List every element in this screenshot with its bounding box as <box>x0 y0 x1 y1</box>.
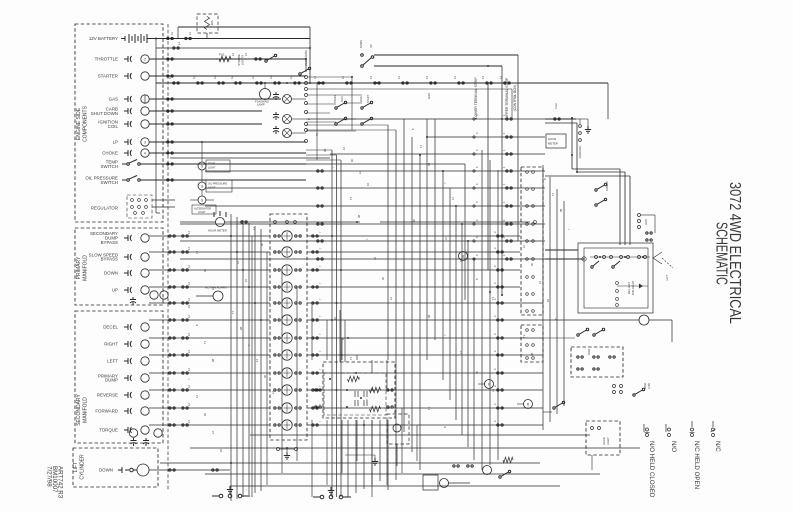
switch pod left <box>591 261 599 268</box>
svg-text:START: START <box>333 94 337 103</box>
bus staircase from manifold rows <box>251 236 253 497</box>
enclosure ENGINE SIDE COMPONENTS <box>75 24 163 222</box>
connector main trunk <box>486 82 493 84</box>
bus risers gas feed <box>387 125 389 360</box>
valve coil V11 <box>282 403 292 413</box>
wire cabin feed <box>543 411 552 413</box>
svg-text:HEAD: HEAD <box>602 437 606 444</box>
connector right column <box>526 258 529 261</box>
svg-text:LIGHT: LIGHT <box>606 437 610 445</box>
svg-text:MANIFOLD: MANIFOLD <box>83 397 89 423</box>
wire trunk row 188 <box>205 187 545 189</box>
connector right column <box>526 310 529 313</box>
wire manifold row right y390 <box>307 389 543 391</box>
svg-text:ENGINE SIDE: ENGINE SIDE <box>76 107 82 140</box>
switch up-down toggle <box>361 54 374 68</box>
wire trunk row 224 <box>180 223 545 225</box>
svg-text:4WD: 4WD <box>587 349 591 355</box>
connector right column <box>526 171 529 174</box>
wire manifold row right y373 <box>307 372 543 374</box>
switch platform select <box>299 67 311 75</box>
valve coil V4 <box>282 282 292 292</box>
svg-text:DOWN: DOWN <box>359 40 363 48</box>
wire temp switch row <box>150 163 306 165</box>
svg-text:7/27/98: 7/27/98 <box>46 466 53 487</box>
diode pod <box>617 285 648 287</box>
wire pod feeds <box>545 249 578 251</box>
svg-text:SECONDARY: SECONDARY <box>76 394 82 426</box>
wire manifold row right y355 <box>307 354 543 356</box>
wire bottom trunk 435 <box>250 434 590 436</box>
harness dashed rail <box>167 24 169 490</box>
svg-text:4B: 4B <box>211 359 215 362</box>
svg-text:AUX: AUX <box>644 219 648 225</box>
wire bottom trunk 486 <box>230 485 560 487</box>
wire alternator stubs <box>190 199 198 201</box>
svg-text:LIFT: LIFT <box>73 462 79 472</box>
svg-text:FOR-RIGHT: FOR-RIGHT <box>631 280 635 295</box>
wire trunk row 171 <box>205 170 545 172</box>
wire pin fan <box>308 88 512 90</box>
enclosure right connector column upper <box>521 167 543 315</box>
ground pins <box>579 125 582 128</box>
svg-text:LOWER TERMINAL STRIP: LOWER TERMINAL STRIP <box>474 77 478 119</box>
svg-text:START: START <box>366 94 370 103</box>
svg-text:CREEP: CREEP <box>605 181 609 191</box>
capacitor network C4 <box>364 400 367 406</box>
svg-text:40A: 40A <box>210 20 214 25</box>
svg-text:4: 4 <box>144 151 146 155</box>
connector main trunk <box>318 82 325 84</box>
wire right cluster stub <box>641 214 655 216</box>
svg-text:DOWN: DOWN <box>99 468 113 473</box>
switch throttle interlock <box>265 54 277 62</box>
wire trunk row 206 <box>205 205 545 207</box>
enclosure SECONDARY MANIFOLD <box>75 311 163 443</box>
bus bundle center-left <box>230 214 232 501</box>
wire breaker risers <box>571 118 573 169</box>
connector main trunk <box>402 82 409 84</box>
wire trunk row 119 <box>306 118 545 120</box>
svg-text:FU1: FU1 <box>219 53 225 57</box>
svg-text:SCHEMATIC: SCHEMATIC <box>713 222 730 285</box>
connector bottom cluster <box>453 465 460 467</box>
svg-text:F: F <box>488 383 490 387</box>
capacitor network C2 <box>355 400 358 406</box>
solenoid carb coil <box>283 115 292 124</box>
wire throttle row <box>149 58 305 60</box>
connector head light <box>591 427 594 430</box>
svg-text:ALTERNATOR: ALTERNATOR <box>194 207 211 211</box>
svg-text:LIGHT: LIGHT <box>208 186 216 190</box>
wire manifold row right y303 <box>307 302 543 304</box>
valve coil V8 <box>282 350 292 360</box>
svg-text:PLATFORM: PLATFORM <box>304 50 308 66</box>
wire manifold row y270 <box>149 269 270 271</box>
wire manifold row y236 <box>149 235 270 237</box>
circuit breaker FU2 <box>554 118 560 120</box>
enclosure valve coil column <box>270 214 307 440</box>
resistor network R3 <box>370 406 381 412</box>
wire starter trunk <box>149 75 306 77</box>
connector block right low <box>613 385 616 388</box>
lamp oil pressure light <box>198 182 206 190</box>
component UP auxiliary coils <box>150 291 158 299</box>
ground symbol main <box>585 126 591 133</box>
wire manifold row right y408 <box>307 407 543 409</box>
svg-text:FORWARD: FORWARD <box>95 409 118 414</box>
svg-text:LEFT: LEFT <box>666 275 669 281</box>
svg-text:2: 2 <box>144 57 146 61</box>
resistor FU1 throttle <box>219 56 231 62</box>
wire staircase rows <box>464 164 466 300</box>
connector main trunk <box>430 82 437 84</box>
wire trunk row 154 <box>330 153 545 155</box>
svg-text:SWITCH: SWITCH <box>100 164 118 169</box>
connector right column <box>526 344 529 347</box>
svg-text:COIL: COIL <box>108 124 119 129</box>
ground cluster below coil box <box>277 448 280 451</box>
junction dots <box>309 82 311 84</box>
wire bottom trunk 463 <box>160 462 540 464</box>
wire feed drop right <box>309 27 311 83</box>
wire manifold row y373 <box>149 372 270 374</box>
wire manifold row right y425 <box>307 424 543 426</box>
wire manifold row right y236 <box>307 235 520 237</box>
solenoid gas coil <box>283 95 292 104</box>
wire cluster links <box>306 103 336 105</box>
wire manifold row y425 <box>149 424 270 426</box>
lamp temp light <box>198 162 206 170</box>
wire carb row <box>149 110 262 112</box>
lamp flashing platform <box>260 89 271 100</box>
wire manifold row right y320 <box>307 319 543 321</box>
wire manifold row right y287 <box>307 286 520 288</box>
enclosure head light box <box>586 421 620 455</box>
capacitor network C1 <box>355 391 358 397</box>
svg-text:12V BATTERY: 12V BATTERY <box>89 36 118 41</box>
wire main distribution trunk <box>156 82 608 84</box>
wire trunk row 259 <box>180 258 545 260</box>
svg-text:TORQUE: TORQUE <box>99 428 118 433</box>
svg-text:4B: 4B <box>427 163 431 166</box>
switch start run A <box>335 101 347 109</box>
wire battery feed top <box>156 38 310 40</box>
wire manifold row y252 <box>149 251 270 253</box>
connector main trunk <box>374 82 381 84</box>
wire manifold row right y338 <box>307 337 543 339</box>
component 4wd motor <box>639 315 649 325</box>
svg-text:RUN: RUN <box>359 96 363 102</box>
wire 4wd switch feed <box>543 337 575 339</box>
connector right column <box>526 240 529 243</box>
wire manifold row y320 <box>149 319 270 321</box>
svg-text:MANIFOLD: MANIFOLD <box>83 255 89 281</box>
switch bottom cluster B <box>313 495 351 499</box>
svg-text:N/C HELD OPEN: N/C HELD OPEN <box>693 441 700 489</box>
connector lower strip pins <box>305 76 308 79</box>
svg-text:THROTTLE: THROTTLE <box>95 57 118 62</box>
wire corner bends to pod <box>572 168 620 170</box>
connector battery feed <box>167 37 174 39</box>
component TORQUE auxiliary coils <box>129 429 137 437</box>
enclosure LIFT CYLINDER <box>73 448 158 487</box>
legend N/C symbol <box>711 421 716 437</box>
switch 4wd select <box>577 328 589 336</box>
wire bottom trunk 474 <box>205 473 600 475</box>
wire regulator links <box>152 199 175 201</box>
switch cluster creep <box>595 183 607 191</box>
bus bundle center-right <box>481 150 483 470</box>
connector main trunk <box>274 82 281 84</box>
svg-text:METER: METER <box>548 142 558 146</box>
svg-text:RUN: RUN <box>340 96 344 102</box>
enclosure resistor network outer <box>323 362 395 418</box>
svg-text:LIGHT: LIGHT <box>198 210 206 214</box>
svg-text:SWITCH: SWITCH <box>100 180 118 185</box>
fuse 40A <box>197 14 218 33</box>
svg-text:4B: 4B <box>530 353 534 356</box>
svg-text:HOUR: HOUR <box>548 137 556 141</box>
wire manifold row y408 <box>149 407 270 409</box>
relay F forward <box>485 380 494 389</box>
wire pod pin row <box>590 256 650 258</box>
lamp bottom <box>440 479 449 488</box>
solenoid ignition coil <box>283 129 292 138</box>
svg-text:CYLINDER: CYLINDER <box>80 454 86 480</box>
svg-text:FU2: FU2 <box>554 103 558 109</box>
connector right column <box>526 205 529 208</box>
enclosure aux lamp box <box>387 414 409 444</box>
wire bottom trunk 448 <box>190 447 640 449</box>
connector main trunk <box>458 82 465 84</box>
wire solenoid feeds <box>292 98 307 100</box>
connector main trunk <box>256 82 263 84</box>
valve coil V3 <box>282 265 292 275</box>
bus fan staggered <box>419 155 421 470</box>
legend N/O symbol <box>666 424 671 437</box>
svg-text:4B: 4B <box>323 149 327 152</box>
svg-text:DECEL: DECEL <box>103 325 118 330</box>
lamp aux <box>393 424 401 432</box>
enclosure drive pod inner loop <box>584 248 648 308</box>
valve coil V6 <box>282 315 292 325</box>
valve coil V12 <box>282 420 292 430</box>
wire fuse feed upper <box>178 26 310 28</box>
wire lp row <box>149 141 306 143</box>
wire battery negative <box>156 47 310 49</box>
svg-text:N/C: N/C <box>714 441 721 452</box>
connector right cluster pins <box>638 214 641 217</box>
svg-text:LP: LP <box>113 140 118 145</box>
wire manifold row y287 <box>149 286 270 288</box>
connector main trunk <box>197 82 204 84</box>
connector coil box header <box>274 221 277 224</box>
connector right column <box>526 329 529 332</box>
svg-text:N/O HELD CLOSED: N/O HELD CLOSED <box>648 441 655 498</box>
wire manifold row right y270 <box>307 269 520 271</box>
relay B brake <box>459 252 468 261</box>
valve coil V5 <box>282 298 292 308</box>
svg-text:N/O: N/O <box>670 441 677 452</box>
svg-text:4B: 4B <box>427 315 431 318</box>
connector tow valve <box>577 356 583 358</box>
valve coil V7 <box>282 333 292 343</box>
wire manifold row y338 <box>149 337 270 339</box>
wire pod fork right <box>653 252 662 258</box>
svg-text:LOW: LOW <box>647 383 651 389</box>
alarm motion <box>213 291 223 301</box>
switch bottom cluster A <box>212 494 250 498</box>
valve coil V1 <box>282 231 292 241</box>
svg-text:3: 3 <box>144 140 146 144</box>
valve coil V9 <box>282 368 292 378</box>
svg-text:LIGHT: LIGHT <box>208 166 216 170</box>
connector right column <box>526 276 529 279</box>
enclosure right connector column lower <box>521 325 543 362</box>
valve coil V10 <box>282 385 292 395</box>
enclosure resistor network inner <box>324 373 386 415</box>
enclosure drive pod outer loop <box>578 243 653 313</box>
connector right column <box>526 223 529 226</box>
svg-text:GAS: GAS <box>427 93 431 99</box>
wire toggle to risers <box>374 54 518 56</box>
switch high low <box>633 388 645 396</box>
svg-text:4B: 4B <box>239 327 243 330</box>
relay pod input <box>582 257 586 261</box>
svg-text:BYPASS: BYPASS <box>101 240 118 245</box>
bus bundle right <box>542 165 544 430</box>
connector pod inner column <box>616 282 619 285</box>
connector main trunk <box>294 82 301 84</box>
svg-text:DOWN: DOWN <box>104 271 118 276</box>
wire manifold row right y252 <box>307 251 520 253</box>
resistor network R2 <box>370 387 381 393</box>
wire lift cylinder row <box>149 469 230 471</box>
svg-text:GROUND: GROUND <box>578 146 582 158</box>
switch cabin <box>553 401 565 409</box>
connector main trunk <box>173 82 180 84</box>
lamp alternator light <box>198 196 206 204</box>
wire manifold row y390 <box>149 389 270 391</box>
connector right column <box>526 293 529 296</box>
svg-text:BYPASS: BYPASS <box>101 257 118 262</box>
svg-text:CHOKE: CHOKE <box>102 151 118 156</box>
resistor network R1 <box>348 376 359 382</box>
connector right column <box>526 188 529 191</box>
connector main trunk <box>235 82 242 84</box>
svg-text:UP: UP <box>369 44 373 48</box>
wire manifold row y303 <box>149 302 270 304</box>
switch governor <box>499 470 511 478</box>
svg-text:UP: UP <box>112 288 118 293</box>
wire lamp drops <box>201 142 203 162</box>
relay R reverse <box>524 400 533 409</box>
governor bottom <box>483 466 492 475</box>
junction dot breaker <box>571 154 573 156</box>
svg-text:UPPER TERMINAL STRIP: UPPER TERMINAL STRIP <box>505 77 509 118</box>
switch start run B <box>361 101 373 109</box>
legend N/C HELD OPEN symbol <box>690 421 695 437</box>
svg-text:LEFT: LEFT <box>107 359 118 364</box>
svg-text:REGULATOR: REGULATOR <box>91 206 118 211</box>
connector main trunk <box>218 82 225 84</box>
svg-text:LAMP: LAMP <box>257 103 265 107</box>
svg-text:REV-LEFT: REV-LEFT <box>627 281 631 294</box>
wire trunk row 137 <box>427 136 545 138</box>
svg-text:SHUT DOWN: SHUT DOWN <box>91 111 118 116</box>
svg-text:TEMP: TEMP <box>208 162 215 166</box>
connector main trunk <box>504 82 511 84</box>
meter hour alternator box <box>546 134 566 148</box>
bus bundle center below network <box>347 420 349 497</box>
svg-text:4B: 4B <box>357 377 361 380</box>
bus riser trio <box>331 150 333 497</box>
svg-text:4B: 4B <box>559 209 563 212</box>
connector right column <box>526 357 529 360</box>
svg-text:(CONTROL BOX): (CONTROL BOX) <box>513 85 517 112</box>
svg-text:GAS: GAS <box>109 97 118 102</box>
junction network dots <box>329 378 331 380</box>
svg-text:DUMP: DUMP <box>105 378 118 383</box>
wire manifold row y355 <box>149 354 270 356</box>
connector main trunk <box>346 82 353 84</box>
wire ignition row <box>149 123 262 125</box>
wire battery return riser <box>155 39 157 214</box>
svg-text:RIGHT: RIGHT <box>104 342 118 347</box>
svg-text:HIGH: HIGH <box>643 383 647 390</box>
svg-text:HOUR METER: HOUR METER <box>208 229 227 233</box>
svg-text:STARTER: STARTER <box>98 74 118 79</box>
bus feeds into network box <box>339 310 341 362</box>
svg-text:PRIMARY: PRIMARY <box>76 256 82 279</box>
svg-text:LIGHTS: LIGHTS <box>241 55 245 65</box>
enclosure tow valve <box>571 347 623 377</box>
connector right cluster pairs <box>646 232 652 234</box>
wire trunk row 241 <box>180 240 545 242</box>
connector pod top pin row <box>595 256 598 259</box>
switch pod mid <box>612 261 620 268</box>
svg-text:COMPONENTS: COMPONENTS <box>83 105 89 142</box>
svg-text:OIL PRESSURE: OIL PRESSURE <box>208 182 227 186</box>
enclosure PRIMARY MANIFOLD <box>75 228 163 305</box>
ground bottom mid <box>372 458 378 465</box>
wire oil pressure row <box>150 179 306 181</box>
connector network pairs <box>315 389 322 391</box>
wire gas row <box>149 98 281 100</box>
legend N/O HELD CLOSED symbol <box>644 424 650 437</box>
valve coil V2 <box>282 247 292 257</box>
capacitor network C3 <box>364 391 367 397</box>
meter hour main <box>216 218 225 227</box>
svg-text:MOTION ALARM: MOTION ALARM <box>205 286 227 290</box>
svg-text:REVERSE: REVERSE <box>97 393 118 398</box>
svg-text:4B: 4B <box>357 215 361 218</box>
wire choke row <box>149 152 306 154</box>
